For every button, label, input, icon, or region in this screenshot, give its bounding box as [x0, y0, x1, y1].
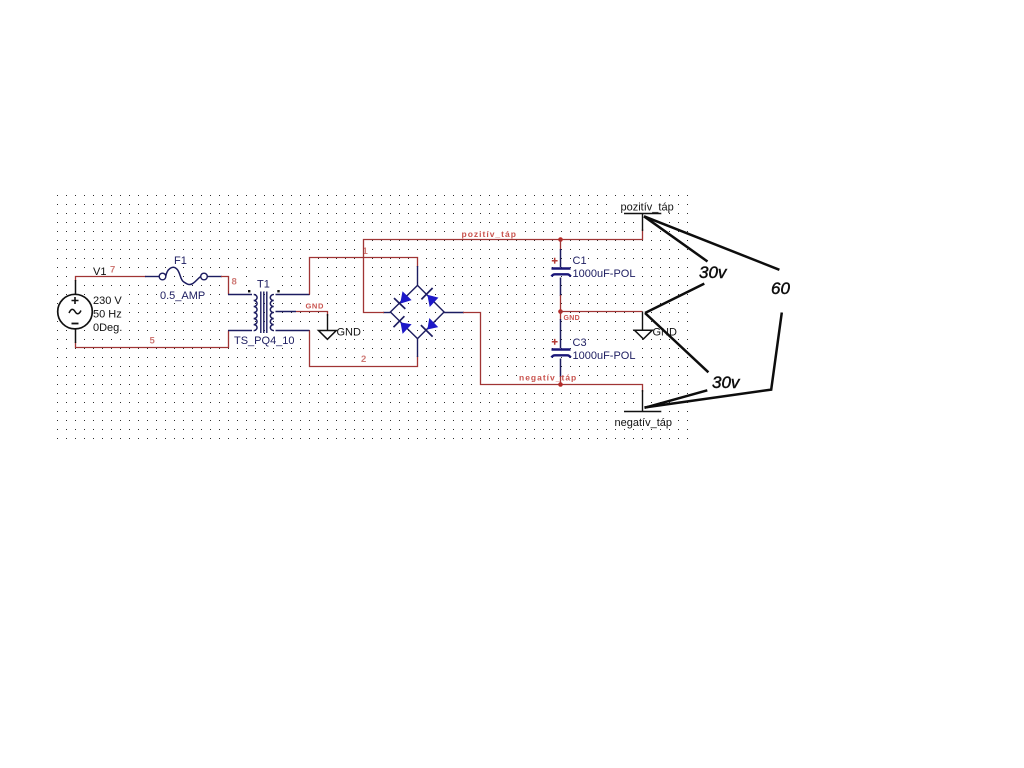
fuse body wave — [166, 267, 201, 284]
phase dot right — [277, 290, 279, 292]
white label backings — [90, 196, 679, 428]
bridge right stub — [444, 312, 464, 314]
junction C1 top — [558, 237, 563, 242]
wire fuse to T1 (red) — [221, 277, 229, 295]
GND lead — [327, 314, 329, 331]
svg-text:50 Hz: 50 Hz — [93, 309, 122, 321]
C1 plates — [552, 267, 571, 270]
secondary mid pin — [276, 311, 297, 313]
svg-text:GND: GND — [564, 315, 580, 322]
C3 bottom lead — [560, 359, 562, 378]
svg-text:T1: T1 — [257, 279, 270, 291]
wire secondary top to bridge (red) — [310, 258, 418, 295]
flag underline pozitiv_tap — [624, 213, 661, 215]
plus sign — [72, 297, 79, 304]
svg-text:230 V: 230 V — [93, 295, 122, 307]
svg-text:30v: 30v — [699, 263, 728, 282]
grid dot field — [57, 195, 689, 440]
junction C3 bottom — [558, 382, 563, 387]
primary bottom pin — [228, 330, 252, 332]
C1 top lead — [560, 240, 562, 251]
C1 plus — [552, 258, 558, 264]
junction mid — [558, 309, 563, 314]
secondary top pin — [276, 294, 310, 296]
svg-text:negatív_táp: negatív_táp — [519, 373, 577, 383]
wire bridge left to pozitiv rail (red) — [364, 229, 643, 313]
svg-text:C3: C3 — [573, 337, 587, 349]
diode D-topleft — [394, 291, 412, 309]
GND lead right — [642, 312, 644, 331]
flag underline negativ_tap — [624, 411, 661, 413]
diode D-topright — [421, 288, 438, 307]
bridge diamond — [390, 285, 444, 338]
core lines — [261, 292, 267, 334]
svg-text:GND: GND — [337, 327, 362, 339]
wire V1 top to fuse (red) — [76, 277, 147, 282]
svg-text:V1: V1 — [93, 266, 106, 278]
svg-text:F1: F1 — [174, 255, 187, 267]
svg-text:2: 2 — [361, 354, 366, 365]
svg-text:0.5_AMP: 0.5_AMP — [160, 290, 205, 302]
diode D-bottomright — [421, 318, 438, 337]
C3 plus — [552, 339, 558, 345]
fuse right terminal circle — [201, 273, 208, 280]
C3 plates — [552, 348, 571, 351]
annotation line negativ to 30v bottom — [645, 390, 708, 408]
ground symbol right — [635, 330, 653, 339]
C3 top lead — [560, 312, 562, 321]
svg-text:30v: 30v — [712, 373, 741, 392]
fuse left pin — [145, 276, 159, 278]
V1 bottom pin — [75, 329, 77, 343]
bridge bottom stub — [417, 339, 419, 357]
C1 bottom lead — [560, 278, 562, 297]
svg-text:1000uF-POL: 1000uF-POL — [573, 350, 636, 362]
svg-text:pozitív_táp: pozitív_táp — [462, 229, 517, 239]
fuse left terminal circle — [159, 273, 166, 280]
svg-text:5: 5 — [150, 336, 156, 347]
svg-text:8: 8 — [232, 277, 237, 288]
svg-text:negatív_táp: negatív_táp — [615, 417, 673, 429]
sine symbol — [69, 309, 81, 313]
V1 top pin — [75, 280, 77, 294]
wire mid to GND flag (red) — [561, 311, 643, 313]
svg-text:1000uF-POL: 1000uF-POL — [573, 268, 636, 280]
svg-text:GND: GND — [306, 302, 324, 311]
svg-text:pozitív_táp: pozitív_táp — [621, 202, 674, 214]
svg-text:C1: C1 — [573, 255, 587, 267]
secondary winding — [270, 295, 273, 331]
annotation line gnd to 30v top — [645, 284, 704, 313]
flag lead pozitiv_tap — [642, 214, 644, 232]
primary winding — [254, 295, 257, 331]
flag lead negativ_tap — [642, 390, 644, 412]
phase dot left — [248, 290, 250, 292]
annotation line gnd to 30v bottom — [645, 313, 708, 372]
wire secondary bottom to bridge (red) — [310, 331, 418, 367]
ground symbol left — [319, 331, 337, 340]
AC source V1 circle — [58, 294, 93, 329]
wire V1 bottom (red) — [76, 331, 229, 348]
svg-text:7: 7 — [110, 265, 115, 276]
bridge left stub — [383, 312, 390, 314]
annotation line pozitiv to 30v — [644, 216, 708, 261]
svg-text:0Deg.: 0Deg. — [93, 322, 122, 334]
secondary bottom pin — [276, 330, 310, 332]
diode D-bottomleft — [394, 316, 412, 334]
annotation line pozitiv to 60 — [644, 216, 779, 269]
wire bridge right to negativ rail (red) — [463, 313, 643, 393]
svg-text:60: 60 — [771, 279, 790, 298]
minus sign — [72, 323, 79, 325]
wire secondary mid to GND (red) — [296, 312, 328, 317]
bridge top stub — [417, 266, 419, 285]
primary top pin — [228, 294, 252, 296]
svg-text:TS_PQ4_10: TS_PQ4_10 — [234, 335, 295, 347]
fuse right pin — [207, 276, 222, 278]
annotation polyline negativ to 60 — [645, 313, 782, 408]
